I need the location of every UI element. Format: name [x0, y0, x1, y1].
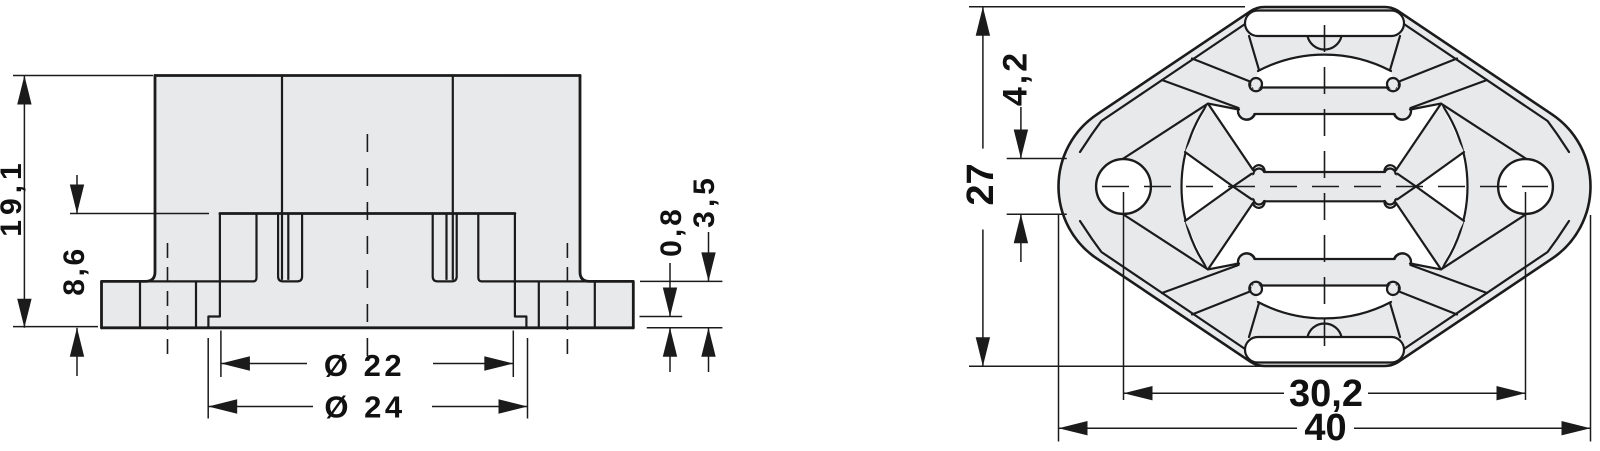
svg-text:0,8: 0,8: [655, 206, 688, 257]
svg-text:4,2: 4,2: [997, 50, 1035, 106]
svg-text:8,6: 8,6: [58, 246, 91, 296]
svg-text:Ø 22: Ø 22: [324, 348, 405, 383]
svg-text:Ø 24: Ø 24: [324, 390, 405, 425]
svg-text:3,5: 3,5: [688, 174, 721, 228]
svg-text:40: 40: [1304, 407, 1346, 449]
svg-text:19,1: 19,1: [0, 158, 28, 236]
svg-text:27: 27: [960, 163, 1002, 205]
